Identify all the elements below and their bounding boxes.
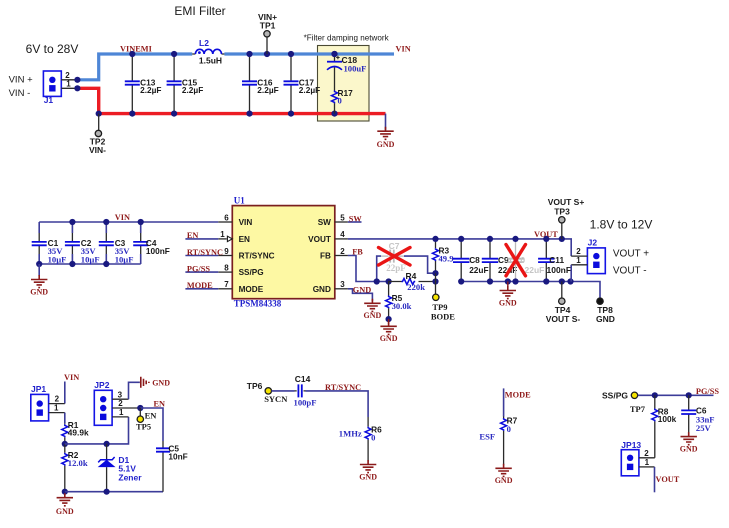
junction R3 / R4 / TP9 [432, 278, 438, 284]
junction VIN rail x=106.3 [103, 219, 109, 225]
J2 pin 2 stub [571, 255, 587, 257]
svg-text:100pF: 100pF [294, 398, 317, 408]
inductor L2 [192, 38, 224, 65]
wire EN stub [185, 238, 218, 240]
svg-text:2: 2 [118, 399, 123, 408]
ground (JP2 pin 3, sideways) [140, 377, 170, 388]
svg-text:1: 1 [576, 256, 581, 265]
test point TP1 [264, 31, 270, 37]
junction C18 top [331, 51, 337, 57]
svg-text:PG/SS: PG/SS [187, 264, 210, 273]
svg-text:VINEMI: VINEMI [120, 45, 152, 54]
svg-text:EN: EN [154, 399, 166, 408]
ground (input caps) [30, 275, 48, 296]
svg-text:U1: U1 [234, 195, 245, 205]
svg-text:GND: GND [499, 298, 517, 307]
junction VIN- rail x=132.3 [129, 111, 135, 117]
svg-text:3: 3 [118, 390, 123, 399]
wire C1 bottom to gnd [38, 264, 40, 276]
wire R1R2 to JP2 pin1 [65, 417, 129, 444]
junction VIN+ rail x=132.3 [129, 51, 135, 57]
junction VIN- rail x=334.5 [331, 111, 337, 117]
svg-text:GND: GND [596, 314, 615, 324]
svg-text:12.0k: 12.0k [68, 458, 88, 468]
U1 pin 1 stub [218, 238, 227, 240]
junction VIN- rail x=174.1 [171, 111, 177, 117]
ground (R5) [380, 322, 398, 343]
svg-text:GND: GND [377, 140, 395, 149]
svg-text:4: 4 [340, 230, 345, 239]
svg-text:1: 1 [54, 404, 59, 413]
svg-text:GND: GND [359, 472, 377, 481]
capacitor C18 (polarized) [327, 54, 366, 90]
JP13 pin 1 stub [639, 466, 655, 468]
svg-text:SW: SW [349, 214, 363, 223]
svg-text:2.2µF: 2.2µF [257, 85, 278, 95]
capacitor C6 [681, 395, 707, 434]
wire EN net [140, 408, 163, 441]
svg-text:EMI Filter: EMI Filter [174, 4, 225, 18]
capacitor C16 [242, 54, 279, 114]
svg-text:RT/SYNC: RT/SYNC [239, 252, 275, 261]
TP4 stub [561, 282, 563, 299]
wire J2 pin1 to gnd rail [570, 265, 572, 282]
svg-text:2: 2 [644, 449, 649, 458]
connector JP13 [621, 440, 641, 476]
svg-text:22pF: 22pF [386, 263, 406, 273]
svg-text:TP7: TP7 [630, 404, 646, 414]
svg-text:J2: J2 [588, 237, 598, 247]
capacitor C15 [167, 54, 204, 114]
svg-text:30.0k: 30.0k [392, 301, 412, 311]
J2 pin 1 stub [571, 264, 587, 266]
svg-text:GND: GND [495, 476, 513, 485]
svg-text:VIN: VIN [239, 218, 253, 227]
ground (U1 pin 3) [364, 299, 382, 320]
svg-text:0: 0 [371, 433, 375, 443]
svg-text:0: 0 [338, 96, 342, 106]
test point TP7 [631, 392, 637, 398]
svg-text:VIN -: VIN - [9, 88, 31, 99]
svg-text:2.2µF: 2.2µF [140, 85, 161, 95]
junction caps bottom x=72.4 [69, 261, 75, 267]
svg-text:GND: GND [152, 378, 170, 387]
svg-text:3: 3 [340, 280, 345, 289]
JP2 pin 3 stub [112, 398, 128, 400]
junction out bottom rail x=561.8 [559, 278, 565, 284]
svg-text:MODE: MODE [187, 281, 213, 290]
svg-text:ESF: ESF [479, 432, 495, 442]
svg-text:VIN: VIN [115, 213, 130, 222]
wire R4 leads [389, 281, 436, 283]
junction VOUT rail x=461.2 [458, 236, 464, 242]
junction VIN+ rail x=174.1 [171, 51, 177, 57]
resistor R1 [62, 420, 89, 444]
ground (output caps) [499, 286, 517, 307]
JP2 pin 2 stub [112, 407, 140, 409]
junction VIN rail x=140.7 [138, 219, 144, 225]
junction R1/R2 [62, 441, 68, 447]
resistor R7 [501, 416, 518, 465]
svg-text:1MHz: 1MHz [339, 429, 362, 439]
wire RT/SYNC stub [185, 255, 218, 257]
junction out bottom rail x=515.5 [512, 278, 518, 284]
wire out gnd stub [507, 282, 509, 289]
svg-text:TP1: TP1 [260, 21, 276, 31]
wire JP1 pin1 down [64, 413, 66, 424]
junction caps bottom x=106.3 [103, 261, 109, 267]
wire R5 to gnd [388, 319, 390, 324]
wire MODE net [503, 388, 505, 416]
junction D1 top [104, 441, 110, 447]
svg-text:SS/PG: SS/PG [239, 268, 264, 277]
wire JP13 pin1 VOUT [654, 467, 656, 492]
wire RT/SYNC net [306, 391, 369, 417]
svg-text:VOUT +: VOUT + [613, 249, 649, 260]
svg-text:VOUT S-: VOUT S- [546, 314, 581, 324]
svg-text:100nF: 100nF [146, 246, 170, 256]
junction VOUT rail x=546.3 [543, 236, 549, 242]
svg-text:1: 1 [119, 408, 124, 417]
svg-text:FB: FB [320, 252, 331, 261]
junction VOUT rail x=515.5 [512, 236, 518, 242]
junction out bottom rail x=546.3 [543, 278, 549, 284]
connector JP2 [94, 380, 112, 425]
capacitor C8 [453, 239, 489, 282]
svg-text:100uF: 100uF [344, 63, 367, 73]
ground (C6) [680, 432, 698, 453]
wire VOUT rail [348, 239, 571, 256]
resistor R6 [365, 417, 382, 462]
filter damping network box [318, 46, 370, 122]
capacitor C11 [538, 239, 564, 282]
svg-text:JP1: JP1 [31, 384, 46, 394]
svg-text:VIN-: VIN- [89, 145, 106, 155]
wire MODE stub [185, 288, 218, 290]
wire PG/SS stub [185, 271, 218, 273]
svg-text:6V to 28V: 6V to 28V [26, 42, 79, 56]
svg-text:1: 1 [645, 458, 650, 467]
wire FB to C7 riser [377, 256, 381, 281]
svg-text:22uF: 22uF [525, 265, 545, 275]
capacitor C9 [482, 239, 518, 282]
svg-text:RT/SYNC: RT/SYNC [187, 248, 223, 257]
junction VOUT rail x=435.5 [432, 236, 438, 242]
U1 pin 9 stub [218, 255, 232, 257]
JP2 pin 1 stub [112, 416, 128, 418]
svg-text:C7: C7 [389, 241, 400, 251]
svg-text:PG/SS: PG/SS [696, 387, 719, 396]
svg-text:C9: C9 [498, 255, 509, 265]
svg-text:GND: GND [30, 287, 48, 296]
capacitor C5 [156, 441, 188, 492]
TP3 stub [561, 223, 563, 239]
test point TP8 (black) [597, 298, 603, 304]
svg-text:1.8V to 12V: 1.8V to 12V [590, 218, 653, 232]
test point TP2 [95, 130, 101, 136]
svg-text:VOUT -: VOUT - [613, 265, 647, 276]
DNP cross over C10 [506, 245, 526, 276]
svg-text:10nF: 10nF [168, 452, 187, 462]
svg-text:1: 1 [66, 80, 71, 89]
capacitor C4 [133, 233, 170, 256]
svg-text:JP2: JP2 [94, 380, 109, 390]
wire VIN riser [64, 382, 66, 404]
svg-text:10µF: 10µF [81, 254, 100, 264]
svg-text:8: 8 [224, 263, 229, 272]
junction VIN- rail x=291.0 [288, 111, 294, 117]
svg-text:TP3: TP3 [554, 207, 570, 217]
svg-text:EN: EN [239, 235, 250, 244]
test point TP5 [137, 416, 143, 422]
junction EN/TP5 [137, 405, 143, 411]
capacitor C13 [125, 54, 162, 114]
svg-text:10µF: 10µF [48, 254, 67, 264]
test point TP6 [265, 388, 271, 394]
junction R8 top [652, 392, 658, 398]
svg-text:FB: FB [352, 248, 363, 257]
junction VIN- rail x=98.7 [96, 111, 102, 117]
junction FB/C7 [374, 278, 380, 284]
JP1 pin 1 stub [49, 412, 65, 414]
resistor R5 [386, 293, 412, 319]
svg-text:VIN: VIN [396, 44, 411, 53]
svg-text:TP9: TP9 [432, 302, 447, 312]
U1 pin 5 stub [335, 221, 348, 223]
svg-text:C11: C11 [549, 255, 564, 265]
svg-text:GND: GND [680, 444, 698, 453]
junction VIN- rail x=249.5 [246, 111, 252, 117]
svg-text:100k: 100k [658, 414, 677, 424]
capacitor C3 [99, 233, 126, 254]
svg-text:EN: EN [187, 231, 199, 240]
wire JP2 pin3 to gnd [129, 382, 140, 399]
junction VIN rail x=72.4 [69, 219, 75, 225]
svg-text:RT/SYNC: RT/SYNC [325, 383, 361, 392]
svg-text:L2: L2 [199, 38, 209, 48]
junction J1 pin2 [74, 77, 80, 83]
wire SS/PG net [638, 394, 714, 396]
junction out bottom rail x=461.2 [458, 278, 464, 284]
junction VIN+ rail x=291.0 [288, 51, 294, 57]
svg-text:22uF: 22uF [469, 265, 488, 275]
test point TP3 [559, 217, 565, 223]
junction VIN+ rail x=334.5 [331, 51, 337, 57]
svg-text:2.2µF: 2.2µF [299, 85, 320, 95]
junction out bottom rail x=490.0 [487, 278, 493, 284]
svg-text:2: 2 [340, 247, 345, 256]
svg-text:R4: R4 [406, 271, 417, 281]
junction out bottom rail x=570.5 [567, 278, 573, 284]
junction D1 bottom [104, 489, 110, 495]
wire EN bottom rail [65, 491, 163, 493]
junction VIN+ rail x=267.0 [264, 51, 270, 57]
U1 pin 3 stub [335, 288, 348, 290]
resistor R8 [652, 395, 677, 458]
capacitor C2 [65, 233, 92, 254]
test point TP9 [433, 294, 439, 300]
svg-text:6: 6 [224, 213, 229, 222]
svg-text:2: 2 [65, 71, 70, 80]
svg-text:0: 0 [507, 424, 511, 434]
capacitor C14 [294, 374, 317, 408]
U1 pin 7 stub [218, 288, 232, 290]
svg-text:*Filter damping network: *Filter damping network [304, 33, 390, 42]
svg-text:GND: GND [364, 311, 382, 320]
svg-text:EN: EN [145, 410, 158, 420]
ground (EN divider) [56, 493, 74, 516]
wire VIN- rail (red bus) [77, 88, 385, 113]
junction R3 bottom / C7 [432, 270, 438, 276]
svg-text:TPSM84338: TPSM84338 [234, 299, 282, 309]
svg-text:25V: 25V [696, 423, 712, 433]
junction VIN+ rail x=249.5 [246, 51, 252, 57]
U1 pin 8 stub [218, 271, 232, 273]
svg-text:C14: C14 [295, 374, 311, 384]
TP1 stub [266, 37, 268, 54]
JP1 pin 2 stub [49, 403, 65, 405]
resistor R3 [433, 239, 454, 273]
capacitor C10 (DNP, grey) [507, 239, 544, 282]
svg-text:220k: 220k [407, 282, 425, 292]
capacitor C17 [284, 54, 321, 114]
capacitor C7 (DNP, grey) [381, 241, 406, 273]
connector J1 [43, 71, 61, 105]
svg-text:1: 1 [220, 230, 225, 239]
svg-text:10µF: 10µF [115, 254, 134, 264]
svg-text:JP13: JP13 [621, 440, 641, 450]
U1 pin 4 stub [335, 238, 348, 240]
junction C6 top [686, 392, 692, 398]
junction R5 bottom [386, 316, 392, 322]
svg-text:2: 2 [576, 247, 581, 256]
svg-text:49.9k: 49.9k [68, 428, 89, 438]
svg-text:2: 2 [55, 395, 60, 404]
JP13 pin 2 stub [639, 457, 655, 459]
ground (R7) [495, 464, 513, 485]
wire VIN- to GND [385, 114, 387, 130]
svg-text:GND: GND [56, 507, 74, 516]
svg-text:100nF: 100nF [547, 265, 572, 275]
svg-text:GND: GND [380, 334, 398, 343]
J1 pin 1 stub [61, 87, 77, 89]
svg-text:5: 5 [340, 213, 345, 222]
svg-text:VOUT: VOUT [656, 475, 680, 484]
svg-text:BODE: BODE [431, 312, 455, 322]
junction VOUT rail x=561.8 [559, 236, 565, 242]
resistor R17 [332, 88, 354, 114]
svg-text:TP5: TP5 [136, 422, 151, 432]
wire VIN node rail [39, 222, 218, 264]
wire TP6 to C14 [272, 390, 295, 392]
wire U1 GND pin [348, 289, 373, 302]
svg-text:J1: J1 [44, 95, 54, 105]
ground (R6) [359, 460, 377, 481]
svg-text:GND: GND [353, 286, 371, 295]
svg-text:GND: GND [313, 285, 331, 294]
junction caps bottom x=39.2 [36, 261, 42, 267]
U1 pin 2 stub [335, 255, 348, 257]
svg-text:SYCN: SYCN [264, 394, 288, 404]
svg-text:SS/PG: SS/PG [602, 391, 628, 401]
junction VOUT rail x=490.0 [487, 236, 493, 242]
ground (EMI filter) [377, 127, 395, 150]
junction FB/R5 [386, 278, 392, 284]
svg-text:TP6: TP6 [247, 381, 263, 391]
svg-text:SW: SW [318, 218, 331, 227]
svg-text:1.5uH: 1.5uH [199, 56, 222, 66]
junction EN bottom rail left [62, 489, 68, 495]
wire R5 top [388, 282, 390, 295]
U1 EN pin input arrow [227, 236, 232, 241]
svg-text:9: 9 [224, 247, 229, 256]
svg-text:MODE: MODE [505, 391, 531, 400]
DNP cross over C7 [379, 248, 411, 266]
TP2 stub [98, 114, 100, 131]
svg-text:49.9: 49.9 [439, 254, 454, 264]
junction out bottom rail x=507.8 [505, 278, 511, 284]
svg-text:VOUT: VOUT [308, 235, 331, 244]
capacitor C1 [32, 233, 59, 254]
J1 pin 2 stub [61, 79, 77, 81]
resistor R2 [62, 444, 88, 492]
wire FB net [348, 256, 389, 282]
op-amp U1 TPSM84338 (power module) [232, 195, 334, 308]
svg-text:VIN +: VIN + [9, 75, 33, 86]
test point TP4 [559, 298, 565, 304]
svg-text:Zener: Zener [118, 472, 142, 482]
wire SW stub [348, 221, 362, 223]
junction J1 pin1 [74, 85, 80, 91]
svg-text:VIN: VIN [64, 373, 79, 382]
TP5 stub [139, 408, 141, 416]
resistor R4 [402, 271, 426, 292]
svg-text:2.2µF: 2.2µF [182, 85, 203, 95]
svg-text:7: 7 [224, 280, 229, 289]
svg-text:MODE: MODE [239, 285, 264, 294]
svg-text:C8: C8 [469, 255, 480, 265]
wire R3 node to TP9 [435, 273, 437, 294]
wire C7 to R3 [404, 256, 436, 273]
connector JP1 [31, 384, 49, 421]
connector J2 [587, 237, 605, 273]
wire input caps bottom rail [39, 263, 141, 265]
diode D1 (5.1V zener) [98, 444, 143, 492]
U1 pin 6 stub [218, 221, 232, 223]
wire output caps bottom rail [461, 282, 600, 302]
wire VIN+ rail (blue bus) [77, 54, 394, 80]
